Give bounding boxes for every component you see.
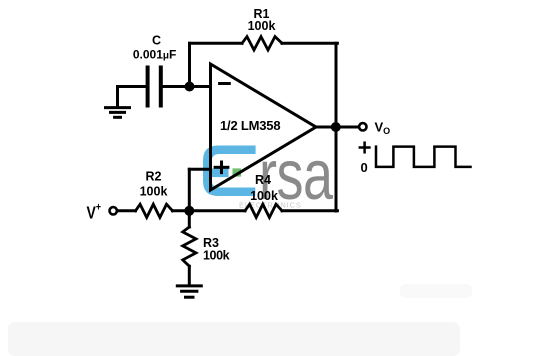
junction dot inverting input node: [185, 82, 195, 92]
waveform plus sign: [360, 143, 370, 153]
faint bottom band: [8, 322, 460, 356]
wire V+ to R2: [118, 209, 136, 212]
wire R4 to right vertical: [282, 209, 337, 212]
svg-text:R2: R2: [146, 170, 162, 184]
watermark logo E: [203, 146, 256, 197]
svg-text:100k: 100k: [250, 189, 278, 203]
faint smudge: [400, 284, 472, 298]
svg-text:100k: 100k: [140, 185, 168, 199]
op-amp plus symbol: [215, 162, 228, 173]
wire R3 top stub: [188, 211, 191, 227]
wire left vertical to inverting node: [188, 43, 191, 86]
junction dot divider node: [184, 206, 194, 216]
circuit ink: [106, 37, 471, 298]
wire R3 to ground: [188, 266, 191, 284]
wire capacitor right to op-amp minus input: [163, 85, 211, 88]
op-amp U1 triangle: [211, 64, 317, 190]
svg-text:V+: V+: [87, 202, 102, 223]
ground left stub: [116, 87, 119, 107]
watermark text rsa: [259, 136, 333, 214]
wire right vertical: [335, 43, 338, 211]
wire non-inverting input vertical: [188, 169, 191, 211]
ground bottom symbol: [177, 286, 201, 297]
ground left symbol: [106, 108, 130, 118]
svg-text:0.001μF: 0.001μF: [133, 48, 177, 62]
wire node row: [173, 209, 246, 212]
wire top feedback right: [282, 42, 337, 45]
wire non-inverting input horizontal: [189, 168, 210, 171]
svg-text:100k: 100k: [248, 19, 276, 33]
svg-text:0: 0: [361, 160, 368, 175]
terminal Vo circle: [359, 123, 366, 130]
terminal V+ circle: [110, 207, 117, 214]
svg-text:1/2 LM358: 1/2 LM358: [220, 118, 280, 133]
resistor R3: [183, 227, 196, 266]
resistor R1: [242, 37, 282, 50]
waveform square wave: [376, 147, 471, 167]
junction dot output node: [331, 122, 341, 132]
svg-text:C: C: [152, 34, 161, 48]
svg-text:R4: R4: [255, 173, 271, 187]
resistor R2: [136, 204, 173, 217]
op-amp minus symbol: [220, 82, 230, 85]
capacitor C: [148, 68, 161, 106]
svg-text:VO: VO: [375, 120, 391, 137]
svg-text:100k: 100k: [203, 249, 230, 263]
watermark green square: [233, 168, 242, 176]
resistor R4: [245, 204, 282, 217]
wire capacitor left: [118, 85, 146, 88]
wire top feedback left: [190, 42, 243, 45]
wire output: [316, 126, 358, 129]
